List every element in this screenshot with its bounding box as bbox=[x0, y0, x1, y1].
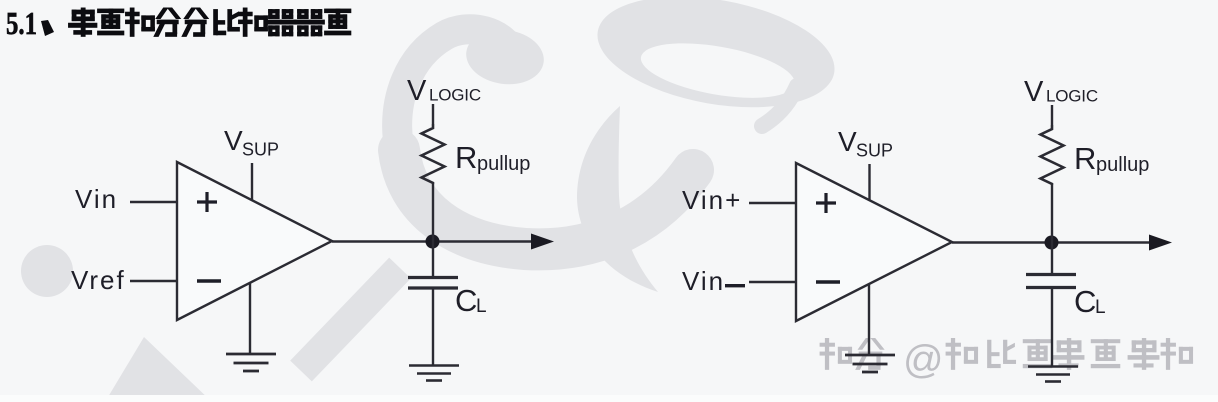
wire Vin- input bbox=[749, 281, 796, 283]
wire Vin+ input bbox=[749, 202, 796, 204]
wire output bbox=[952, 241, 1150, 243]
ground comparator bbox=[226, 354, 276, 371]
watermark lower arc bbox=[399, 150, 693, 249]
arrowhead output bbox=[1149, 235, 1172, 251]
svg-text:L: L bbox=[476, 296, 487, 317]
minus input symbol bbox=[197, 279, 221, 282]
watermark triangle bbox=[105, 337, 212, 402]
op-amp comparator U1 bbox=[177, 162, 332, 320]
wire VLOGIC to resistor bbox=[1051, 105, 1053, 125]
watermark big ring bbox=[589, 0, 843, 124]
resistor Rpullup bbox=[1041, 125, 1064, 185]
resistor Rpullup bbox=[422, 124, 445, 184]
wire VSUP bbox=[868, 164, 870, 201]
svg-text:V: V bbox=[224, 125, 243, 156]
svg-text:5.1: 5.1 bbox=[6, 5, 37, 41]
capacitor CL bbox=[1026, 275, 1076, 288]
wire VLOGIC to resistor bbox=[432, 104, 434, 124]
svg-text:SUP: SUP bbox=[856, 141, 893, 161]
watermark ring tail bbox=[762, 86, 797, 126]
watermark ellipse blob bbox=[21, 245, 73, 297]
title chinese 单端和差分比较器配置 bbox=[69, 8, 351, 36]
svg-text:V: V bbox=[407, 75, 427, 107]
gray watermark text: 知乎 @深圳市灵星芯微 bbox=[820, 338, 1193, 382]
watermark comma swoosh head bbox=[463, 25, 548, 89]
wire comparator ground bbox=[249, 283, 251, 353]
op-amp comparator U2 bbox=[796, 163, 952, 321]
plus input symbol bbox=[197, 192, 217, 212]
node output junction bbox=[1045, 236, 1059, 250]
svg-text:V: V bbox=[1024, 76, 1044, 108]
wire comparator ground bbox=[868, 284, 870, 354]
minus input symbol bbox=[816, 280, 840, 283]
svg-text:R: R bbox=[455, 140, 477, 175]
svg-text:Vin: Vin bbox=[75, 184, 118, 214]
svg-text:pullup: pullup bbox=[1096, 154, 1149, 176]
wire resistor to node bbox=[432, 184, 434, 276]
svg-text:C: C bbox=[1074, 284, 1096, 319]
watermark diagonal band bbox=[301, 268, 400, 371]
svg-text:R: R bbox=[1074, 141, 1096, 176]
label Vin- dash bbox=[725, 284, 745, 287]
background bottom light strip bbox=[0, 395, 1218, 402]
ground capacitor bbox=[409, 366, 459, 381]
wire Vref input bbox=[130, 280, 177, 282]
wire capacitor to ground bbox=[1051, 288, 1053, 366]
wire resistor to node bbox=[1051, 185, 1053, 273]
wire capacitor to ground bbox=[432, 289, 434, 365]
svg-text:LOGIC: LOGIC bbox=[1046, 87, 1098, 106]
svg-text:pullup: pullup bbox=[477, 153, 530, 175]
plus input symbol bbox=[816, 193, 836, 213]
ground comparator bbox=[845, 355, 895, 372]
svg-text:Vref: Vref bbox=[71, 265, 126, 295]
svg-text:@: @ bbox=[903, 338, 944, 382]
svg-text:Vin+: Vin+ bbox=[682, 185, 742, 215]
wire output bbox=[332, 240, 532, 242]
node output junction bbox=[426, 235, 440, 249]
capacitor CL bbox=[408, 278, 458, 289]
svg-text:SUP: SUP bbox=[242, 140, 279, 160]
ground capacitor bbox=[1028, 367, 1078, 382]
watermark crescent bbox=[577, 106, 658, 292]
svg-text:V: V bbox=[838, 126, 857, 157]
wire Vin input bbox=[130, 201, 177, 203]
wire VSUP bbox=[251, 163, 253, 200]
svg-text:LOGIC: LOGIC bbox=[429, 86, 481, 105]
svg-text:L: L bbox=[1095, 297, 1106, 318]
arrowhead output bbox=[531, 234, 554, 250]
watermark comma swoosh arc bbox=[397, 29, 515, 148]
svg-text:Vin: Vin bbox=[682, 266, 725, 296]
svg-text:C: C bbox=[455, 283, 477, 318]
title ideographic comma bbox=[41, 20, 54, 36]
